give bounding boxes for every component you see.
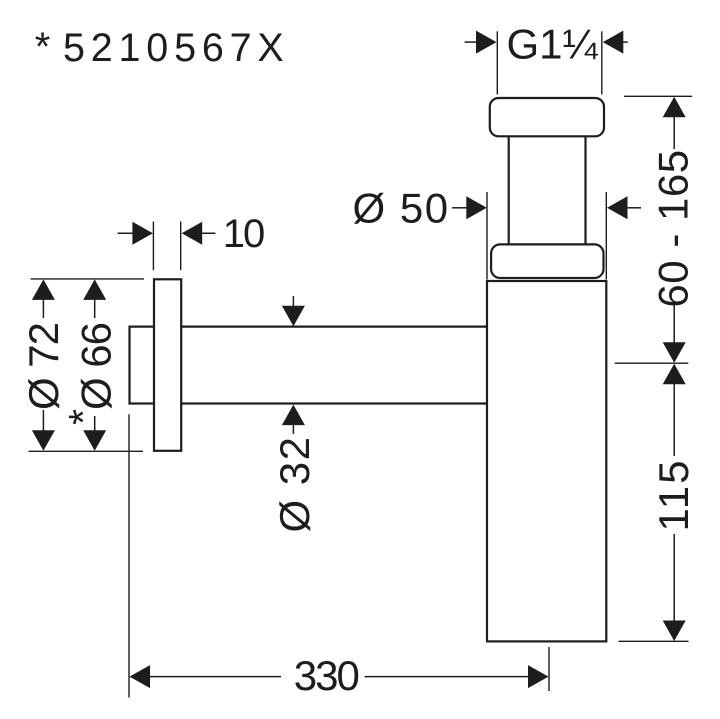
dim G1 1/4 left arrow [465, 41, 478, 43]
dim 115 bottom tick line [619, 640, 689, 642]
extension line right of siphon body (dim 50) [605, 192, 607, 280]
dim 115 top arrow [663, 364, 686, 385]
dim 115 bottom arrow [673, 534, 675, 623]
dim 32 top arrow [292, 296, 294, 310]
horizontal outlet pipe left end cap [128, 326, 130, 405]
dim 330 left extension line [128, 414, 130, 697]
svg-text:Ø 66: Ø 66 [73, 323, 120, 410]
dim mid tick line [615, 362, 689, 364]
dim 10 right extension line [180, 222, 182, 271]
dim 330 left arrow [130, 665, 151, 688]
svg-text:G1¼: G1¼ [507, 20, 599, 67]
dim 72/66 top tick line [31, 278, 145, 280]
dim 60-165 top arrow [663, 97, 686, 118]
dim 60-165 bottom arrow [673, 305, 675, 345]
dim G1 1/4 right arrow [621, 41, 628, 43]
svg-text:*: * [60, 409, 106, 425]
svg-text:Ø 72: Ø 72 [20, 323, 67, 410]
dim 32 bottom arrow [292, 422, 294, 434]
dim 330 right extension line [548, 647, 550, 691]
dim 66 bottom arrow [83, 430, 106, 451]
siphon body [487, 281, 606, 641]
dim 330 right arrow [528, 665, 549, 688]
dim 72/66 bottom tick line [29, 450, 144, 452]
dim 50 right arrow [625, 207, 641, 209]
dim 10 left extension line [152, 222, 154, 271]
dim 72 top arrow [32, 279, 55, 300]
dim 10 right arrow [199, 232, 215, 234]
bottom nut [491, 244, 603, 278]
dim G1 1/4 left extension line [496, 31, 498, 94]
dim 66 top arrow [83, 279, 106, 300]
dim 60-165 top tick line [624, 95, 692, 97]
horizontal outlet pipe bottom edge [130, 402, 488, 404]
top nut [490, 98, 604, 136]
extension line left of siphon body (dim 50) [486, 192, 488, 280]
dim 10 left arrow [118, 232, 134, 234]
svg-text:10: 10 [223, 212, 264, 256]
svg-text:115: 115 [650, 459, 697, 532]
vertical inlet pipe left edge [508, 130, 510, 250]
svg-text:330: 330 [294, 652, 359, 699]
svg-text:*: * [35, 25, 51, 69]
vertical inlet pipe right edge [584, 130, 586, 250]
horizontal outlet pipe top edge [130, 326, 488, 328]
svg-text:Ø 50: Ø 50 [353, 185, 450, 232]
svg-text:Ø 32: Ø 32 [271, 435, 318, 532]
dim 72 bottom arrow [32, 430, 55, 451]
dim G1 1/4 right extension line [601, 31, 603, 94]
wall flange [154, 279, 181, 451]
dim 50 left arrow [452, 207, 468, 209]
svg-text:5210567X: 5210567X [63, 26, 290, 70]
svg-text:60 - 165: 60 - 165 [650, 149, 697, 307]
